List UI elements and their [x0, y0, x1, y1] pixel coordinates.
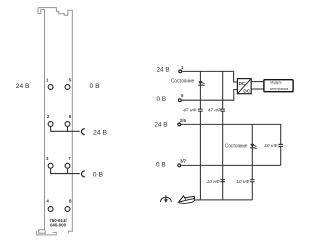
terminal 8 contact circle — [65, 207, 70, 212]
terminal 7 contact circle — [65, 163, 70, 168]
terminal 1 contact circle — [48, 85, 53, 90]
module electronics box — [264, 80, 293, 92]
svg-text:10 нФ: 10 нФ — [264, 143, 277, 149]
terminal 3 contact circle — [48, 163, 53, 168]
svg-text:040-000: 040-000 — [50, 223, 67, 228]
terminal circle 3/7 — [178, 164, 181, 167]
terminal 4 contact circle — [48, 207, 53, 212]
svg-text:Состояние: Состояние — [225, 143, 248, 149]
svg-text:DC: DC — [239, 81, 246, 86]
svg-text:3/7: 3/7 — [180, 159, 187, 164]
chassis rail wire — [196, 199, 252, 201]
svg-text:10 нФ: 10 нФ — [236, 179, 249, 185]
capacitor C2 47nF plates — [220, 109, 225, 111]
branch wire LED1/C1 — [199, 71, 201, 200]
LED D2 status — [250, 144, 257, 149]
wire terminals 3-7 joined — [50, 168, 80, 173]
terminal circle 1 — [179, 70, 182, 73]
connector socket row3 — [81, 171, 84, 177]
terminal 2 contact circle — [48, 122, 53, 127]
svg-text:DC: DC — [243, 89, 250, 94]
terminal 6 contact circle — [65, 122, 70, 127]
LED D1 status — [198, 81, 205, 86]
svg-text:47 нФ: 47 нФ — [208, 108, 221, 114]
svg-text:0 В: 0 В — [93, 172, 104, 179]
svg-text:2/6: 2/6 — [180, 118, 187, 123]
module outline 750-613 side profile — [36, 8, 72, 235]
branch wire LED2/C4 — [251, 124, 253, 199]
wire terminals 2-6 joined — [50, 127, 80, 132]
module type label 750-613/040-000 — [49, 218, 67, 228]
svg-text:10 нФ: 10 нФ — [207, 179, 220, 185]
svg-text:Модуль: Модуль — [270, 81, 282, 85]
output wire DC/DC minus — [251, 87, 270, 90]
branch wire C2 — [222, 71, 224, 200]
svg-text:электроника: электроника — [270, 87, 289, 91]
wire 0V system — [182, 90, 238, 101]
svg-text:24 В: 24 В — [154, 121, 167, 128]
connector socket row2 — [81, 129, 84, 135]
terminal circle 5 — [178, 99, 181, 102]
svg-text:0 В: 0 В — [156, 162, 166, 169]
svg-text:24 В: 24 В — [157, 67, 170, 74]
DC/DC converter U1 — [237, 79, 251, 94]
wire 24V field — [181, 124, 281, 165]
svg-text:Состояние: Состояние — [171, 79, 194, 85]
ground symbol — [160, 195, 171, 203]
terminal circle 2/6 — [178, 123, 181, 126]
terminal 5 contact circle — [65, 85, 70, 90]
power jumper contact arrow — [179, 196, 201, 204]
svg-text:0 В: 0 В — [157, 96, 167, 103]
svg-text:0 В: 0 В — [90, 83, 101, 90]
capacitor C4 10nF plates — [250, 180, 255, 182]
capacitor C5 10nF plates — [278, 144, 283, 146]
wire 24V system — [182, 71, 237, 82]
capacitor C1 47nF plates — [198, 109, 203, 111]
capacitor C3 10nF plates — [220, 180, 225, 182]
svg-text:47 нФ: 47 нФ — [183, 108, 196, 114]
svg-text:24 В: 24 В — [93, 129, 107, 136]
wire 0V field — [181, 164, 281, 166]
svg-text:24 В: 24 В — [16, 83, 30, 90]
output wire DC/DC plus — [251, 80, 270, 83]
